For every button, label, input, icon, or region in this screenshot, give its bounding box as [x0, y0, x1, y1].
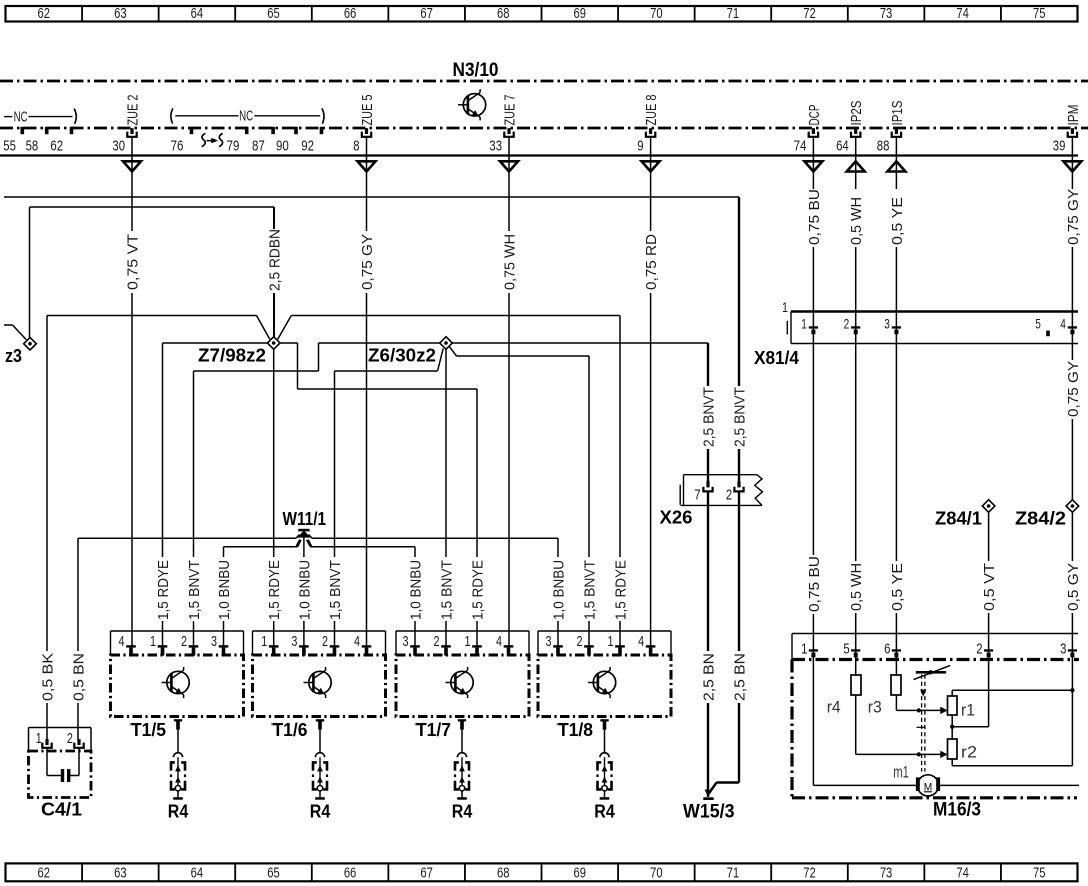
N3/10 unused pin 76: [171, 127, 194, 155]
X26 pin 2: [726, 481, 744, 503]
svg-text:67: 67: [420, 6, 433, 22]
T1/5 pin 4: [119, 633, 136, 656]
svg-text:9: 9: [637, 138, 643, 155]
svg-text:0,5 YE: 0,5 YE: [890, 197, 906, 245]
wire 0,5 BK vertical (to C4/1 pin 1): [40, 316, 56, 741]
wire to X26 pin 2 (2,5 BNVT net, horizontal): [4, 196, 739, 198]
N3/10 pin 64 (IP2S): [836, 101, 865, 155]
svg-text:W11/1: W11/1: [283, 509, 327, 529]
svg-text:62: 62: [38, 6, 51, 22]
svg-text:2,5 BN: 2,5 BN: [732, 653, 748, 701]
svg-text:0,5 YE: 0,5 YE: [890, 563, 906, 611]
svg-text:55: 55: [3, 138, 16, 155]
wire 0,75 RD (ZUE 8 pin 9 to T1/8 pin 4): [644, 137, 660, 646]
svg-text:68: 68: [497, 866, 510, 882]
X81/4 pin 4: [1060, 316, 1077, 335]
svg-text:0,75 BU: 0,75 BU: [807, 189, 823, 245]
ignition coil T1/8 connector strip: [538, 631, 671, 655]
svg-text:1,5 BNVT: 1,5 BNVT: [582, 560, 598, 620]
svg-text:ZUE 5: ZUE 5: [360, 95, 376, 126]
svg-text:W15/3: W15/3: [683, 802, 735, 823]
svg-text:IP2S: IP2S: [849, 101, 865, 126]
svg-text:1,0 BNBU: 1,0 BNBU: [217, 560, 233, 620]
N3/10 unused pin 79: [227, 127, 249, 155]
svg-text:1: 1: [608, 633, 614, 650]
direction arrow down (DCP): [804, 161, 822, 171]
svg-text:NC: NC: [14, 109, 28, 125]
svg-text:IPM: IPM: [1066, 105, 1082, 126]
ground point W15/3: [703, 797, 713, 800]
svg-text:4: 4: [638, 633, 644, 650]
svg-text:1,5 RDYE: 1,5 RDYE: [267, 560, 283, 620]
svg-text:75: 75: [1033, 6, 1046, 22]
svg-text:72: 72: [803, 6, 816, 22]
N3/10 unused pin 87: [252, 127, 275, 155]
svg-text:2: 2: [577, 633, 583, 650]
svg-text:0,75 WH: 0,75 WH: [502, 234, 518, 290]
T1/8 pin 4: [638, 633, 655, 656]
mechanical linkage (dashed): [917, 675, 927, 772]
label R4 (T1/7): [452, 802, 473, 822]
svg-text:4: 4: [119, 633, 125, 650]
N3/10 pin 30 (ZUE 2): [112, 95, 141, 155]
ignition coil T1/6 housing (dash-dot box): [253, 655, 386, 717]
direction arrow down at x=132: [123, 161, 141, 171]
svg-text:1,5 BNVT: 1,5 BNVT: [439, 560, 455, 620]
T1/7 pin 3: [403, 633, 420, 656]
wire 0,5 BK bus (C4/1 pin 1 to splice Z7/98z2 to T1/8 pin 1): [47, 316, 629, 647]
label r3: [868, 699, 882, 717]
direction arrow up (IP2S): [847, 161, 865, 171]
M16/3 pin 6: [884, 640, 901, 657]
potentiometer preset symbol: [914, 665, 951, 679]
C4/1 pin 1: [36, 730, 52, 748]
label z3: [5, 346, 22, 366]
svg-text:73: 73: [880, 866, 893, 882]
svg-text:N3/10: N3/10: [453, 60, 499, 81]
connector strip C4/1: [29, 728, 92, 752]
ignition coil T1/6 connector strip: [253, 631, 386, 655]
svg-text:63: 63: [114, 6, 127, 22]
NC bracket (pins 55 58 62): [4, 109, 76, 126]
svg-text:5: 5: [843, 640, 849, 657]
svg-text:1: 1: [150, 633, 156, 650]
NC bracket (pins 76-92): [171, 108, 324, 124]
capacitor C4/1 housing (dash-dot box): [29, 751, 92, 798]
svg-text:2,5 BNVT: 2,5 BNVT: [732, 387, 748, 447]
direction arrow down at x=509: [500, 161, 518, 171]
actuator M16/3 housing (dash-dot box): [792, 660, 1079, 798]
label Z6/30z2: [368, 346, 436, 366]
wire M16/3 pin 1 to motor: [813, 784, 916, 786]
svg-text:33: 33: [489, 138, 502, 155]
svg-text:NC: NC: [239, 109, 253, 125]
X81/4 slot designator 1: [782, 299, 788, 315]
connector X26 box: [680, 475, 762, 506]
T1/5 bottom pin: [174, 719, 182, 730]
X81/4 pin 5: [1035, 316, 1050, 337]
wire splice Z6/30z2 to X26 pin 7 (2,5 BNVT): [452, 343, 717, 483]
T1/7 bottom pin: [458, 719, 466, 730]
svg-text:T1/6: T1/6: [273, 720, 308, 740]
T1/5 pin 3: [211, 633, 228, 656]
svg-text:Z84/2: Z84/2: [1015, 509, 1066, 529]
T1/6 bottom pin: [316, 719, 324, 730]
direction arrow down at x=366.5: [358, 161, 376, 171]
M16/3 pin 5: [843, 640, 860, 657]
T1/7 pin 2: [434, 633, 451, 656]
T1/6 pin 1: [261, 633, 278, 656]
svg-text:1,0 BNBU: 1,0 BNBU: [408, 560, 424, 620]
svg-text:r2: r2: [961, 744, 977, 762]
svg-text:Z6/30z2: Z6/30z2: [368, 346, 436, 366]
resistor R4 (below T1/6): [312, 730, 328, 800]
svg-text:R4: R4: [310, 802, 331, 822]
svg-text:1,5 RDYE: 1,5 RDYE: [613, 560, 629, 620]
svg-text:ZUE 2: ZUE 2: [125, 95, 141, 126]
svg-text:DCP: DCP: [807, 105, 823, 126]
wire 2,5 RDBN (to splice Z7/98z2 and T1/6 pin 1): [267, 207, 283, 647]
wire z3 horizontal: [30, 206, 275, 208]
svg-text:69: 69: [574, 866, 587, 882]
label M16/3: [933, 800, 981, 821]
motor m1: [916, 775, 940, 796]
svg-text:3: 3: [291, 633, 297, 650]
M16/3 connector strip: [792, 634, 1078, 660]
label m1: [893, 764, 909, 782]
svg-text:66: 66: [344, 6, 357, 22]
svg-text:0,75 RD: 0,75 RD: [644, 234, 660, 290]
svg-text:R4: R4: [168, 802, 189, 822]
resistor R4 (below T1/7): [454, 730, 470, 800]
svg-text:m1: m1: [893, 764, 909, 782]
svg-text:67: 67: [420, 866, 433, 882]
svg-text:1,0 BNBU: 1,0 BNBU: [551, 560, 567, 620]
svg-text:ZUE 8: ZUE 8: [644, 95, 660, 126]
T1/6 pin 3: [291, 633, 308, 656]
svg-text:1: 1: [465, 633, 471, 650]
label R4 (T1/8): [594, 802, 615, 822]
ignition coil T1/7 housing (dash-dot box): [396, 655, 529, 717]
label C4/1: [41, 800, 82, 820]
T1/5 pin 1: [150, 633, 167, 656]
svg-text:74: 74: [794, 138, 807, 155]
svg-text:6: 6: [884, 640, 890, 657]
wire r2 bottom to pin 3: [952, 759, 1072, 766]
svg-text:4: 4: [1060, 316, 1066, 332]
svg-text:r3: r3: [868, 699, 882, 717]
svg-text:71: 71: [727, 866, 740, 882]
svg-text:79: 79: [227, 138, 240, 155]
transistor symbol inside T1/7: [446, 667, 474, 698]
svg-text:2: 2: [322, 633, 328, 650]
svg-text:M16/3: M16/3: [933, 800, 981, 821]
C4/1 pin 2: [67, 730, 84, 748]
wire 2,5 BN (X26 pin 2 to W15/3): [705, 491, 749, 797]
resistor r1 (M16/3): [948, 696, 958, 715]
label T1/7: [415, 720, 452, 740]
direction arrow down (IPM): [1063, 161, 1081, 171]
svg-text:3: 3: [546, 633, 552, 650]
svg-text:63: 63: [114, 866, 127, 882]
svg-text:1,5 BNVT: 1,5 BNVT: [328, 560, 344, 620]
svg-text:4: 4: [496, 633, 502, 650]
svg-text:58: 58: [26, 138, 39, 155]
svg-text:1,5 RDYE: 1,5 RDYE: [156, 560, 172, 620]
svg-text:92: 92: [301, 138, 314, 155]
svg-text:0,5 GY: 0,5 GY: [1066, 563, 1082, 611]
M16/3 pin 3: [1060, 640, 1077, 657]
wire 0,75 VT (ZUE 2 pin 30 to T1/5 pin 4): [125, 137, 141, 646]
svg-text:2: 2: [844, 316, 850, 332]
svg-text:0,5 WH: 0,5 WH: [849, 197, 865, 245]
svg-text:2: 2: [67, 730, 73, 747]
svg-text:2: 2: [976, 640, 982, 657]
N3/10 unused pin 62: [50, 127, 73, 155]
svg-text:88: 88: [877, 138, 890, 155]
wire r1/r2 junction to pin 2: [950, 715, 989, 739]
svg-text:68: 68: [497, 6, 510, 22]
svg-text:2,5 BNVT: 2,5 BNVT: [701, 387, 717, 447]
N3/10 unused pin 90: [276, 127, 298, 155]
svg-text:2,5 BN: 2,5 BN: [701, 653, 717, 701]
svg-text:3: 3: [211, 633, 217, 650]
svg-text:r1: r1: [961, 702, 975, 720]
T1/8 bottom pin: [600, 719, 608, 730]
svg-text:73: 73: [880, 6, 893, 22]
svg-text:ZUE 7: ZUE 7: [502, 95, 518, 126]
svg-text:7: 7: [694, 487, 700, 504]
svg-text:0,75 GY: 0,75 GY: [1066, 361, 1082, 417]
svg-text:2: 2: [181, 633, 187, 650]
label Z7/98z2: [198, 346, 266, 366]
ground point W11/1 arrow: [296, 529, 312, 557]
ground bus W11/1 lower (T1/5 pin 3 - T1/7 pin 3): [217, 540, 425, 647]
wire 0,75 WH (ZUE 7 pin 33 to T1/7 pin 4): [502, 137, 518, 646]
svg-text:1: 1: [782, 299, 788, 315]
label W15/3: [683, 802, 735, 823]
svg-text:3: 3: [1060, 640, 1066, 657]
label W11/1: [283, 509, 327, 529]
N3/10 pin 74 (DCP): [794, 105, 823, 155]
N3/10 pin 9 (ZUE 8): [637, 95, 660, 155]
N3/10 unused pin 92: [301, 127, 323, 155]
bus line below N3/10 connector: [0, 154, 1078, 156]
wire T1/5 pin 2 to splice Z6/30z2: [187, 343, 440, 647]
svg-text:1: 1: [261, 633, 267, 650]
svg-text:0,5 WH: 0,5 WH: [849, 563, 865, 611]
wire T1/6 pin 3 (1,0 BNBU): [297, 560, 313, 647]
svg-text:T1/8: T1/8: [558, 720, 593, 740]
svg-text:0,5 BN: 0,5 BN: [71, 653, 87, 701]
svg-text:X81/4: X81/4: [754, 348, 799, 368]
svg-text:74: 74: [956, 6, 969, 22]
svg-text:Z84/1: Z84/1: [935, 509, 982, 529]
svg-text:64: 64: [191, 866, 204, 882]
svg-text:66: 66: [344, 866, 357, 882]
wire motor to box edge: [940, 784, 1079, 786]
wire splice Z6/30z2 to T1/7 pin 2: [439, 350, 455, 647]
svg-text:74: 74: [956, 866, 969, 882]
wire 0,5 YE (IP1S pin 88 via X81/4 pin 3 to M16/3 pin 6): [890, 137, 906, 675]
svg-text:64: 64: [191, 6, 204, 22]
ignition coil T1/8 housing (dash-dot box): [538, 655, 671, 717]
T1/8 pin 1: [608, 633, 625, 656]
svg-text:1: 1: [801, 640, 807, 657]
splice Z6/30z2: [440, 337, 453, 350]
transistor symbol inside T1/5: [162, 667, 190, 698]
svg-text:1: 1: [36, 730, 42, 747]
T1/7 pin 1: [465, 633, 482, 656]
svg-text:X26: X26: [660, 508, 693, 528]
svg-text:75: 75: [1033, 866, 1046, 882]
svg-text:1,0 BNBU: 1,0 BNBU: [297, 560, 313, 620]
wire r1 top to pin 3 net: [952, 688, 1074, 696]
transistor symbol inside T1/8: [588, 667, 616, 698]
T1/6 pin 4: [354, 633, 371, 656]
ground bus W11/1 upper (C4/1 pin 2 - T1/8 pin 3): [71, 535, 567, 741]
label Z84/2: [1015, 509, 1066, 529]
wire T1/6 pin 2 to splice Z6/30z2: [328, 349, 443, 647]
wire z3 stub from edge: [4, 325, 26, 340]
svg-text:71: 71: [727, 6, 740, 22]
svg-text:70: 70: [650, 866, 663, 882]
wire interruption symbol: [202, 133, 223, 146]
resistor r3 (M16/3): [891, 675, 901, 695]
svg-text:3: 3: [884, 316, 890, 332]
svg-text:z3: z3: [5, 346, 22, 366]
N3/10 pin 8 (ZUE 5): [353, 95, 376, 155]
svg-text:2: 2: [434, 633, 440, 650]
control unit N3/10 lower boundary / connector line (dash-dot): [0, 127, 1088, 130]
direction arrow down at x=650.6: [642, 161, 660, 171]
svg-text:0,75 GY: 0,75 GY: [1066, 189, 1082, 245]
label r1: [961, 702, 975, 720]
ignition coil T1/7 connector strip: [396, 631, 529, 655]
svg-text:3: 3: [403, 633, 409, 650]
label T1/8: [557, 720, 594, 740]
grid ruler top (columns 62-75): [6, 6, 1078, 22]
svg-text:T1/5: T1/5: [131, 720, 166, 740]
N3/10 pin 33 (ZUE 7): [489, 95, 518, 155]
svg-text:69: 69: [574, 6, 587, 22]
svg-text:0,75 GY: 0,75 GY: [360, 234, 376, 290]
N3/10 pin 39 (IPM): [1053, 105, 1082, 155]
T1/7 pin 4: [496, 633, 513, 656]
svg-text:R4: R4: [594, 802, 615, 822]
label r4: [827, 699, 841, 717]
label X26: [660, 508, 693, 528]
svg-text:39: 39: [1053, 138, 1066, 155]
svg-text:30: 30: [112, 138, 125, 155]
label T1/5: [130, 720, 167, 740]
svg-text:4: 4: [354, 633, 360, 650]
svg-text:76: 76: [171, 138, 184, 155]
X81/4 pin 2: [844, 316, 861, 335]
resistor R4 (below T1/8): [596, 730, 612, 800]
X81/4 pin 3: [884, 316, 901, 335]
label r2: [961, 744, 977, 762]
svg-text:r4: r4: [827, 699, 841, 717]
transistor symbol inside T1/6: [304, 667, 332, 698]
svg-text:1,5 BNVT: 1,5 BNVT: [187, 560, 203, 620]
wire splice Z6/30z2 to T1/8 pin 2: [450, 347, 599, 647]
transistor symbol inside N3/10: [458, 89, 486, 120]
wire z3 drop: [29, 207, 31, 338]
label T1/6: [271, 720, 308, 740]
svg-text:T1/7: T1/7: [416, 720, 451, 740]
wire 0,75 BU (DCP pin 74 via X81/4 pin 1 to M16/3 pin 1): [807, 137, 823, 785]
N3/10 pin 88 (IP1S): [877, 101, 906, 155]
label Z84/1: [935, 509, 982, 529]
wire r4 to r2 wiper feed: [856, 695, 948, 758]
control unit N3/10 upper boundary (dash-dot): [0, 80, 1088, 83]
N3/10 unused pin 58: [26, 127, 49, 155]
svg-text:R4: R4: [452, 802, 473, 822]
svg-text:64: 64: [836, 138, 849, 155]
svg-text:2: 2: [726, 487, 732, 504]
X26 pin 7: [694, 481, 712, 503]
splice Z84/2: [1066, 500, 1079, 513]
svg-text:65: 65: [267, 6, 280, 22]
splice z3: [24, 337, 37, 350]
grid ruler bottom (columns 62-75): [6, 863, 1078, 881]
svg-text:0,75 BU: 0,75 BU: [807, 556, 823, 612]
wire 2,5 BN (X26 pin 7 to W15/3): [701, 491, 717, 797]
resistor r4 (M16/3): [851, 675, 861, 695]
resistor r2 (M16/3): [948, 739, 958, 759]
wire r3 to r1 wiper feed: [896, 695, 947, 714]
svg-text:0,75 VT: 0,75 VT: [125, 234, 141, 290]
svg-text:65: 65: [267, 866, 280, 882]
label R4 (T1/6): [310, 802, 331, 822]
label X81/4: [754, 348, 799, 368]
wire 0,75 GY (ZUE 5 pin 8 to T1/6 pin 4): [360, 137, 376, 646]
svg-text:87: 87: [252, 138, 265, 155]
ignition coil T1/5 housing (dash-dot box): [111, 655, 244, 717]
svg-text:0,5 BK: 0,5 BK: [40, 653, 56, 701]
wire 0,5 VT (Z84/1 to M16/3 pin 2): [982, 512, 998, 726]
svg-text:2,5 RDBN: 2,5 RDBN: [267, 229, 283, 291]
svg-text:62: 62: [38, 866, 51, 882]
svg-text:1,5 RDYE: 1,5 RDYE: [470, 560, 486, 620]
svg-text:90: 90: [276, 138, 289, 155]
T1/8 pin 2: [577, 633, 594, 656]
N3/10 unused pin 55: [3, 127, 24, 155]
M16/3 pin 2: [976, 640, 993, 657]
svg-text:IP1S: IP1S: [890, 101, 906, 126]
label N3/10: [453, 60, 499, 81]
svg-text:5: 5: [1035, 316, 1041, 332]
splice Z84/1: [982, 500, 995, 513]
label R4 (T1/5): [168, 802, 189, 822]
wire 0,5 WH (IP2S pin 64 via X81/4 pin 2 to M16/3 pin 5): [849, 137, 865, 675]
capacitor C4/1 element: [47, 748, 79, 782]
M16/3 pin 1: [801, 640, 818, 657]
wire 0,75 GY / 0,5 GY (IPM pin 39 via X81/4 pin 4 and Z84/2 to M16/3 pin 3): [1066, 137, 1082, 766]
resistor R4 (below T1/5): [170, 730, 186, 800]
T1/6 pin 2: [322, 633, 339, 656]
svg-text:Z7/98z2: Z7/98z2: [198, 346, 266, 366]
svg-text:70: 70: [650, 6, 663, 22]
svg-text:62: 62: [50, 138, 63, 155]
T1/8 pin 3: [546, 633, 563, 656]
direction arrow up (IP1S): [887, 161, 905, 171]
splice Z7/98z2: [267, 337, 280, 350]
X81/4 pin 1: [801, 316, 818, 335]
wire Z7 horizontal (T1/5 pin 1 - Z7 - T1/7 pin 1): [156, 343, 487, 647]
ignition coil T1/5 connector strip: [111, 631, 244, 655]
